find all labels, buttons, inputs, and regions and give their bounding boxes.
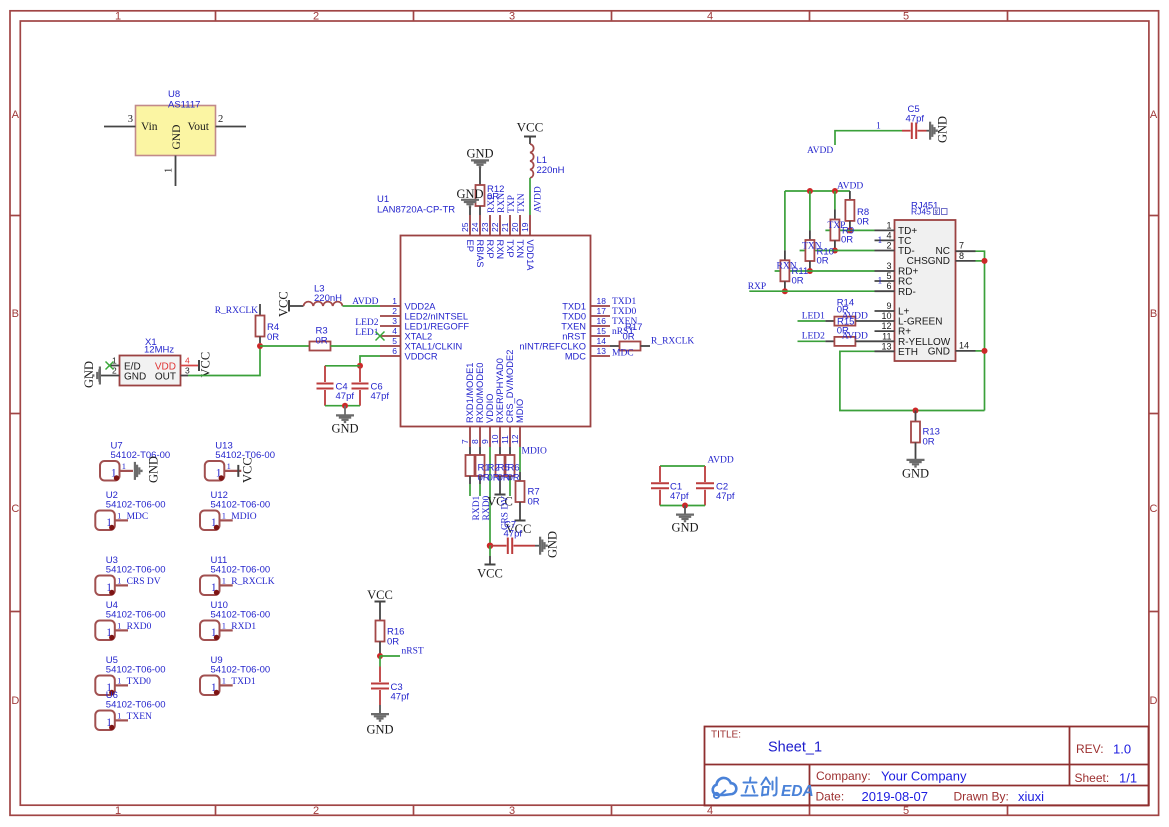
svg-text:GND: GND — [82, 361, 96, 388]
svg-text:47pf: 47pf — [716, 491, 735, 502]
svg-text:AS1117: AS1117 — [168, 100, 200, 111]
svg-text:14: 14 — [959, 340, 969, 350]
svg-text:1: 1 — [122, 461, 126, 471]
svg-text:5: 5 — [903, 11, 909, 23]
wire L1 to U1 pin19 — [529, 178, 531, 215]
wire to C4 top — [325, 365, 360, 367]
svg-text:3: 3 — [128, 114, 133, 125]
svg-text:TXD1: TXD1 — [562, 302, 586, 312]
svg-text:10: 10 — [490, 434, 500, 444]
svg-text:AVDD: AVDD — [842, 312, 868, 322]
svg-text:CRS_DV/MODE2: CRS_DV/MODE2 — [505, 350, 515, 423]
svg-text:13: 13 — [881, 341, 891, 351]
test point U7 — [100, 441, 170, 481]
wire below R2 — [479, 484, 481, 496]
U1 right pins 18-13 — [590, 306, 610, 356]
R1 R2 R5 R6 value labels — [478, 463, 520, 484]
capacitor C6 47pf — [352, 366, 390, 406]
svg-text:1: 1 — [878, 236, 883, 246]
svg-text:0R: 0R — [792, 275, 804, 286]
svg-text:OUT: OUT — [155, 372, 176, 383]
title block texts — [711, 730, 1137, 805]
svg-text:2: 2 — [392, 306, 397, 316]
node junction R4/R3 — [257, 343, 263, 349]
svg-text:4: 4 — [886, 230, 891, 240]
VCC flag at U13 — [238, 457, 254, 483]
wire junction down — [379, 656, 381, 667]
svg-text:LED2/nINTSEL: LED2/nINTSEL — [405, 312, 469, 322]
svg-text:11: 11 — [882, 331, 891, 341]
svg-text:Vin: Vin — [141, 121, 158, 133]
VCC flag below R5 — [487, 495, 513, 509]
svg-text:TXD1: TXD1 — [612, 297, 637, 307]
svg-text:MDIO: MDIO — [231, 512, 256, 522]
svg-text:0R: 0R — [267, 332, 279, 343]
svg-text:24: 24 — [470, 222, 480, 232]
svg-text:54102-T06-00: 54102-T06-00 — [211, 665, 271, 676]
wire nRST stub — [380, 655, 400, 657]
svg-text:GND: GND — [466, 147, 493, 161]
svg-text:VDD: VDD — [155, 362, 176, 373]
inductor L3 220nH — [289, 284, 343, 307]
svg-text:54102-T06-00: 54102-T06-00 — [106, 565, 166, 576]
svg-text:xiuxi: xiuxi — [1018, 789, 1044, 804]
svg-text:20: 20 — [510, 222, 520, 232]
svg-text:TXEN: TXEN — [127, 712, 152, 722]
svg-text:3: 3 — [886, 261, 891, 271]
svg-text:VCC: VCC — [240, 457, 254, 483]
svg-text:R_RXCLK: R_RXCLK — [651, 337, 694, 347]
svg-text:C: C — [11, 503, 19, 515]
svg-text:9: 9 — [480, 439, 490, 444]
svg-text:TXN: TXN — [515, 240, 525, 259]
test point U10 — [200, 600, 270, 640]
svg-text:GND: GND — [671, 521, 698, 535]
node junction pin8 rail — [982, 258, 988, 264]
svg-text:8: 8 — [959, 251, 964, 261]
svg-text:LED1: LED1 — [355, 328, 378, 338]
VCC flag at L3 — [277, 291, 291, 317]
svg-text:EP: EP — [465, 240, 475, 252]
svg-text:RXN: RXN — [777, 262, 797, 272]
svg-text:2019-08-07: 2019-08-07 — [862, 789, 929, 804]
svg-text:1: 1 — [115, 11, 121, 23]
svg-text:MDIO: MDIO — [522, 447, 547, 457]
svg-text:47pf: 47pf — [371, 391, 390, 402]
svg-text:12: 12 — [881, 321, 891, 331]
svg-text:VDD2A: VDD2A — [405, 302, 437, 312]
oscillator X1 12MHz — [82, 337, 213, 388]
resistor R11 0R — [780, 191, 808, 291]
resistor R14 0R on LED2 row — [834, 337, 874, 346]
svg-text:0R: 0R — [923, 437, 935, 448]
svg-text:47pf: 47pf — [670, 491, 689, 502]
svg-text:0R: 0R — [623, 332, 635, 343]
node junction pin9/C7 — [487, 543, 493, 549]
svg-text:3: 3 — [509, 805, 515, 817]
VCC flag top middle — [517, 120, 544, 145]
svg-text:15: 15 — [597, 326, 607, 336]
svg-text:XTAL2: XTAL2 — [405, 332, 433, 342]
resistor R3 0R — [260, 326, 380, 351]
wire below junction + VCC flag — [477, 546, 503, 581]
wire below R1 — [469, 484, 471, 496]
wire pin9 VDDIO down — [489, 447, 491, 546]
svg-text:GND: GND — [902, 467, 929, 481]
svg-text:1: 1 — [164, 168, 175, 173]
wire AVDD to C5 — [835, 131, 902, 145]
svg-text:47pf: 47pf — [336, 391, 355, 402]
svg-text:RXP: RXP — [748, 282, 766, 292]
svg-text:nRST: nRST — [402, 647, 424, 657]
resistor R6 0R below pin11 — [506, 447, 515, 480]
svg-text:RXN: RXN — [495, 240, 505, 260]
svg-text:RXD1: RXD1 — [472, 495, 482, 520]
svg-text:47pf: 47pf — [391, 692, 410, 703]
node junction bottom — [342, 403, 348, 409]
svg-text:GND: GND — [936, 116, 950, 143]
svg-text:54102-T06-00: 54102-T06-00 — [211, 500, 271, 511]
svg-text:TXN: TXN — [802, 242, 822, 252]
capacitor C5 47pf — [902, 104, 927, 139]
svg-text:RXD1: RXD1 — [231, 622, 256, 632]
node junction AVDD/R10 — [807, 188, 813, 194]
svg-text:4: 4 — [392, 326, 397, 336]
svg-text:12MHz: 12MHz — [144, 345, 174, 356]
svg-text:1: 1 — [117, 576, 121, 586]
svg-text:LAN8720A-CP-TR: LAN8720A-CP-TR — [377, 205, 455, 216]
svg-text:GND: GND — [124, 372, 146, 383]
resistor R8 0R — [845, 191, 869, 230]
svg-text:9: 9 — [886, 301, 891, 311]
svg-text:2: 2 — [112, 366, 117, 376]
svg-text:RXER/PHYAD0: RXER/PHYAD0 — [495, 358, 505, 423]
svg-text:AVDD: AVDD — [708, 456, 734, 466]
svg-text:RXD0/MODE0: RXD0/MODE0 — [475, 363, 485, 423]
svg-text:CRS DV: CRS DV — [127, 577, 161, 587]
svg-text:25: 25 — [460, 222, 470, 232]
ground flag below R13 — [902, 460, 929, 481]
svg-text:VCC: VCC — [477, 567, 503, 581]
svg-text:7: 7 — [959, 241, 964, 251]
svg-text:LED2: LED2 — [355, 318, 378, 328]
svg-text:4: 4 — [707, 11, 713, 23]
svg-text:1: 1 — [886, 220, 891, 230]
ground flag at X1 pin2 — [82, 361, 100, 388]
svg-text:TXEN: TXEN — [561, 322, 586, 332]
frame column numbers top — [115, 11, 909, 23]
svg-text:C: C — [1150, 503, 1158, 515]
svg-text:2: 2 — [218, 114, 223, 125]
svg-text:16: 16 — [597, 316, 607, 326]
svg-text:1: 1 — [876, 122, 881, 132]
svg-text:22: 22 — [490, 222, 500, 232]
capacitor C7 47pf — [490, 520, 535, 555]
ground flag at U7 — [135, 456, 161, 483]
svg-text:54102-T06-00: 54102-T06-00 — [106, 610, 166, 621]
svg-text:B: B — [12, 308, 19, 320]
svg-text:D: D — [11, 695, 19, 707]
svg-text:AVDD: AVDD — [352, 297, 378, 307]
svg-text:RBIAS: RBIAS — [475, 240, 485, 268]
wire U1 pin6 to C4/C6 — [360, 356, 380, 366]
wire TD+ row — [825, 229, 874, 231]
svg-text:GND: GND — [928, 346, 950, 357]
svg-text:GND: GND — [147, 456, 161, 483]
svg-text:10: 10 — [881, 311, 891, 321]
IC U1 LAN8720A-CP-TR — [377, 194, 610, 447]
node junction C1/C2 gnd — [682, 503, 688, 509]
node junction pin14 rail — [982, 348, 988, 354]
svg-text:7: 7 — [460, 439, 470, 444]
test point U3 — [95, 555, 165, 595]
svg-text:Date:: Date: — [816, 790, 845, 804]
U1 left pins 1-6 — [380, 306, 400, 356]
resistor R16 0R — [376, 621, 405, 657]
svg-text:MDC: MDC — [565, 352, 586, 362]
svg-text:U8: U8 — [168, 89, 180, 100]
svg-text:RXD0: RXD0 — [127, 622, 152, 632]
VCC flag above R16 — [367, 588, 393, 621]
node junction R8/TD+ — [847, 227, 853, 233]
svg-text:3: 3 — [509, 11, 515, 23]
wire AVDD rail above RJ45 — [785, 190, 850, 192]
no-connect X on X1 pin1 — [106, 362, 114, 370]
wire RJ45 pin8 — [976, 260, 985, 262]
node junction nRST — [377, 653, 383, 659]
svg-text:0R: 0R — [387, 637, 399, 648]
svg-text:TITLE:: TITLE: — [711, 730, 741, 741]
svg-text:23: 23 — [480, 222, 490, 232]
svg-text:GND: GND — [546, 531, 560, 558]
svg-text:0R: 0R — [857, 217, 869, 228]
svg-text:EDA: EDA — [781, 783, 814, 800]
svg-text:1: 1 — [222, 676, 226, 686]
svg-text:1: 1 — [227, 461, 231, 471]
wire RJ45 pin7 to right rail — [976, 251, 985, 410]
svg-text:14: 14 — [597, 336, 607, 346]
svg-text:RJ45: RJ45 — [911, 207, 931, 217]
wire X1 OUT to junction — [188, 346, 260, 376]
svg-text:47pf: 47pf — [504, 529, 523, 540]
test point U5 — [95, 655, 165, 695]
svg-text:LED2: LED2 — [802, 332, 825, 342]
svg-text:TXD0: TXD0 — [127, 677, 152, 687]
svg-text:0R: 0R — [841, 235, 853, 246]
svg-text:TXD0: TXD0 — [562, 312, 586, 322]
wire RD+ row — [775, 270, 875, 272]
svg-text:REV:: REV: — [1076, 742, 1104, 756]
svg-text:Company:: Company: — [816, 769, 871, 783]
svg-text:D: D — [1150, 695, 1158, 707]
X1 pin4 red pin — [181, 365, 200, 367]
svg-text:AVDD: AVDD — [807, 146, 833, 156]
wire C1/C2 bottom rail — [660, 505, 705, 507]
svg-text:3: 3 — [185, 366, 190, 376]
svg-text:13: 13 — [597, 346, 607, 356]
frame row letters left — [11, 109, 19, 707]
resistor R13 0R — [911, 411, 940, 460]
svg-text:RXD1/MODE1: RXD1/MODE1 — [465, 363, 475, 423]
svg-text:VDDIO: VDDIO — [485, 394, 495, 423]
svg-text:VCC: VCC — [367, 588, 393, 602]
svg-text:AVDD: AVDD — [842, 332, 868, 342]
svg-text:Vout: Vout — [187, 121, 209, 133]
svg-text:1: 1 — [878, 277, 883, 287]
svg-text:Your Company: Your Company — [881, 769, 967, 784]
svg-text:1: 1 — [392, 296, 397, 306]
resistor R15 0R on LED1 row — [834, 297, 874, 336]
ground flag below C1/C2 — [671, 506, 698, 535]
svg-text:5: 5 — [903, 805, 909, 817]
svg-text:1.0: 1.0 — [1113, 742, 1131, 757]
svg-text:0R: 0R — [528, 497, 540, 508]
test point U6 — [95, 690, 165, 730]
svg-text:TXD0: TXD0 — [612, 307, 637, 317]
svg-text:GND: GND — [171, 125, 183, 150]
capacitor C4 47pf — [317, 366, 355, 406]
svg-text:1: 1 — [222, 576, 226, 586]
svg-text:0R: 0R — [316, 336, 328, 347]
svg-text:1: 1 — [117, 621, 121, 631]
svg-text:VCC: VCC — [517, 120, 544, 135]
resistor R5 0R below pin10 — [496, 447, 505, 494]
svg-text:nINT/REFCLKO: nINT/REFCLKO — [519, 342, 586, 352]
svg-text:2: 2 — [313, 11, 319, 23]
svg-text:TXP: TXP — [828, 221, 846, 231]
connector RJ451 RJ45 — [875, 201, 976, 362]
svg-text:AVDD: AVDD — [534, 186, 544, 212]
svg-text:RXN: RXN — [497, 193, 507, 213]
svg-text:1: 1 — [117, 511, 121, 521]
svg-text:19: 19 — [520, 222, 530, 232]
svg-text:nRST: nRST — [562, 332, 586, 342]
resistor R10 0R — [805, 191, 834, 271]
svg-text:54102-T06-00: 54102-T06-00 — [211, 565, 271, 576]
svg-text:3: 3 — [392, 316, 397, 326]
resistor R12 0R — [476, 184, 505, 215]
svg-text:RD-: RD- — [898, 287, 916, 298]
ground flag right of C7 — [535, 531, 560, 558]
svg-text:54102-T06-00: 54102-T06-00 — [111, 450, 171, 461]
resistor R2 0R below pin8 — [476, 447, 485, 484]
svg-text:GND: GND — [331, 422, 358, 436]
svg-text:RXP: RXP — [485, 240, 495, 259]
wire LED1 row to RJ45 pin10 — [798, 320, 835, 322]
no-connect X on U1 pin4 — [376, 332, 385, 341]
wire RD- row — [749, 290, 874, 292]
wire L3 to U1 pin1 — [343, 305, 381, 307]
svg-text:17: 17 — [597, 306, 607, 316]
test point U9 — [200, 655, 270, 695]
ground flag right of C5 — [927, 116, 950, 143]
node junction top of C6 — [357, 363, 363, 369]
node junction R13 top — [913, 408, 919, 414]
svg-text:RXP: RXP — [487, 195, 497, 213]
svg-text:1: 1 — [117, 676, 121, 686]
svg-text:2: 2 — [886, 241, 891, 251]
ground flag above R12 — [466, 147, 493, 186]
svg-text:1: 1 — [115, 805, 121, 817]
svg-text:TXP: TXP — [505, 240, 515, 258]
wire bottom C4-C6 — [325, 405, 360, 407]
svg-text:VCC: VCC — [199, 352, 213, 378]
wire below R6 — [509, 480, 511, 496]
VCC flag at X1 pin4 — [199, 352, 213, 378]
node junction R9/TD- — [832, 248, 838, 254]
svg-text:Sheet:: Sheet: — [1075, 771, 1110, 785]
svg-text:54102-T06-00: 54102-T06-00 — [211, 610, 271, 621]
resistor R17 0R on pin14 wire — [610, 322, 650, 351]
wire RJ45 pin14 — [976, 350, 985, 352]
node junction R11/RD- — [782, 288, 788, 294]
svg-text:6: 6 — [392, 346, 397, 356]
RJ45 right pins 7,8,14 — [956, 251, 976, 351]
svg-text:54102-T06-00: 54102-T06-00 — [106, 665, 166, 676]
test point U13 — [205, 441, 275, 481]
svg-text:Drawn By:: Drawn By: — [954, 790, 1009, 804]
node junction AVDD/R9 — [832, 188, 838, 194]
test point U11 — [200, 555, 275, 595]
svg-text:21: 21 — [500, 222, 510, 232]
svg-text:A: A — [12, 109, 20, 121]
svg-text:5: 5 — [886, 271, 891, 281]
test point U2 — [95, 490, 165, 530]
wire RJ45 pin13 ETH loop to rail — [840, 351, 985, 410]
svg-text:4: 4 — [185, 356, 190, 366]
svg-text:18: 18 — [597, 296, 607, 306]
title block — [705, 727, 1149, 806]
svg-text:6: 6 — [886, 281, 891, 291]
svg-text:TXD1: TXD1 — [231, 677, 256, 687]
svg-text:B: B — [1150, 308, 1157, 320]
svg-text:54102-T06-00: 54102-T06-00 — [106, 700, 166, 711]
svg-text:MDIO: MDIO — [515, 399, 525, 423]
svg-text:2: 2 — [313, 805, 319, 817]
test point U12 — [200, 490, 270, 530]
svg-text:47pf: 47pf — [906, 114, 925, 125]
test point U4 — [95, 600, 165, 640]
svg-text:5: 5 — [392, 336, 397, 346]
svg-text:8: 8 — [470, 439, 480, 444]
svg-text:54102-T06-00: 54102-T06-00 — [106, 500, 166, 511]
EasyEDA logo — [713, 778, 814, 801]
resistor R9 0R — [830, 191, 854, 251]
ground flag below C3 — [366, 705, 393, 737]
svg-text:CHSGND: CHSGND — [907, 256, 950, 267]
regulator U8 AS1117 — [104, 89, 246, 186]
svg-text:VCC: VCC — [277, 291, 291, 317]
svg-text:1: 1 — [117, 711, 121, 721]
svg-text:MDC: MDC — [127, 512, 149, 522]
ground flag below C4/C6 — [331, 406, 358, 436]
svg-text:R_RXCLK: R_RXCLK — [215, 306, 258, 316]
inductor L1 220nH — [530, 144, 565, 178]
resistor R4 0R — [256, 304, 280, 343]
svg-text:VDD1A: VDD1A — [525, 240, 535, 272]
wire TD- row — [800, 250, 875, 252]
wire LED2 row to RJ45 pin11 — [798, 340, 835, 342]
wire pin12 down — [519, 447, 521, 472]
svg-text:12: 12 — [510, 434, 520, 444]
svg-text:AVDD: AVDD — [837, 182, 863, 192]
capacitor C1 47pf — [651, 466, 689, 506]
svg-text:220nH: 220nH — [537, 165, 565, 176]
svg-text:4: 4 — [707, 805, 713, 817]
wire C1/C2 top rail — [660, 465, 705, 467]
svg-text:GND: GND — [366, 723, 393, 737]
resistor R1 0R below pin7 — [466, 447, 475, 484]
